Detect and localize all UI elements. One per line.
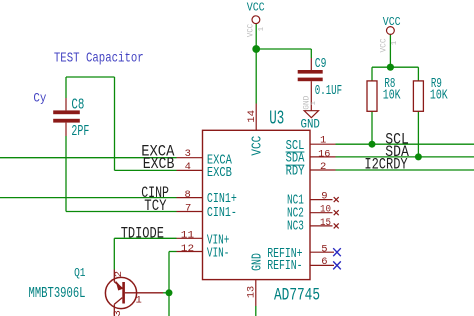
svg-text:0.1UF: 0.1UF bbox=[315, 84, 342, 99]
svg-text:C8: C8 bbox=[71, 96, 84, 113]
svg-text:EXCB: EXCB bbox=[207, 165, 232, 181]
svg-text:1: 1 bbox=[320, 134, 326, 146]
no-connect x pin 15 bbox=[334, 223, 339, 228]
wire VIN- pin12 horizontal bbox=[169, 251, 177, 253]
junction dot Q1 base / pin12 bbox=[166, 289, 173, 296]
svg-text:10: 10 bbox=[320, 205, 331, 216]
pin 16 SDA stub bbox=[310, 156, 336, 158]
no-connect X pin 5 bbox=[333, 248, 341, 256]
wire SCL net to right edge bbox=[336, 143, 474, 145]
wire R9 top stub bbox=[417, 67, 419, 81]
wire TDIODE vertical down to Q1 emitter bbox=[113, 238, 115, 269]
pin 2 RDY stub bbox=[310, 169, 336, 171]
transistor Q1 MMBT3906L bbox=[105, 270, 163, 316]
ground symbol below C9 bbox=[304, 111, 318, 118]
svg-text:Cy: Cy bbox=[33, 90, 46, 105]
svg-text:2: 2 bbox=[320, 161, 326, 173]
pin 7 CIN1- stub bbox=[177, 211, 203, 213]
wire VCC junction to C9 horizontal bbox=[256, 48, 311, 50]
wire CINP net from left edge to pin 8 bbox=[0, 197, 177, 199]
svg-text:14: 14 bbox=[246, 110, 258, 123]
pin 3 EXCA stub bbox=[177, 157, 203, 159]
svg-text:VCC: VCC bbox=[247, 24, 256, 37]
svg-text:4: 4 bbox=[185, 161, 191, 173]
wire R9 bottom to SDA bbox=[417, 111, 419, 157]
wire R8 bottom to SCL bbox=[371, 111, 373, 144]
svg-text:VCC: VCC bbox=[249, 136, 265, 156]
svg-text:NC3: NC3 bbox=[287, 219, 304, 235]
svg-text:MMBT3906L: MMBT3906L bbox=[29, 285, 86, 302]
pin 11 VIN+ stub bbox=[177, 237, 203, 239]
svg-text:GND: GND bbox=[301, 118, 320, 132]
svg-text:TCY: TCY bbox=[144, 197, 167, 215]
svg-text:1: 1 bbox=[258, 26, 266, 31]
svg-text:REFIN-: REFIN- bbox=[267, 258, 302, 274]
svg-text:15: 15 bbox=[320, 218, 331, 229]
svg-text:10K: 10K bbox=[383, 89, 401, 104]
capacitor C9 bbox=[298, 58, 323, 111]
junction dot R9/SDA bbox=[415, 153, 422, 160]
power symbol VCC top center bbox=[252, 16, 260, 24]
wire C8 top vertical up bbox=[65, 77, 67, 98]
svg-text:VCC: VCC bbox=[383, 15, 401, 29]
svg-text:U3: U3 bbox=[269, 107, 284, 129]
svg-text:12: 12 bbox=[181, 243, 194, 255]
svg-text:5: 5 bbox=[321, 243, 327, 255]
svg-text:1: 1 bbox=[136, 294, 142, 306]
wire EXCA net from left edge to pin 3 bbox=[0, 157, 177, 159]
svg-text:GND: GND bbox=[250, 253, 266, 271]
no-connect x pin 9 bbox=[334, 197, 339, 202]
svg-text:9: 9 bbox=[321, 190, 327, 202]
svg-text:I2CRDY: I2CRDY bbox=[364, 156, 407, 174]
junction dot R8/SCL bbox=[369, 141, 376, 148]
svg-text:AD7745: AD7745 bbox=[274, 285, 320, 305]
wire EXCB horizontal to pin 4 bbox=[115, 169, 177, 171]
svg-text:VCC: VCC bbox=[380, 38, 389, 52]
pin 6 REFIN- stub bbox=[310, 264, 334, 266]
wire C9 top drop bbox=[310, 49, 312, 58]
svg-text:8: 8 bbox=[185, 189, 191, 201]
pin 1 SCL stub bbox=[310, 143, 336, 145]
svg-text:11: 11 bbox=[181, 230, 194, 242]
pin 14 VCC stub top bbox=[255, 104, 257, 131]
junction dot VCC2 over resistors bbox=[387, 64, 394, 71]
wire TDIODE horizontal to pin 11 bbox=[114, 237, 176, 239]
svg-text:7: 7 bbox=[185, 202, 191, 214]
pin 10 NC2 stub bbox=[310, 212, 333, 214]
no-connect x pin 10 bbox=[334, 210, 339, 215]
wire vertical from pin12 down past Q1 base to bottom edge bbox=[168, 252, 170, 316]
svg-text:2: 2 bbox=[113, 271, 125, 277]
svg-text:C9: C9 bbox=[315, 57, 327, 72]
wire TCY net horizontal to pin 7 bbox=[66, 211, 177, 213]
power symbol VCC above resistors bbox=[387, 27, 395, 35]
pin 5 REFIN+ stub bbox=[310, 251, 334, 253]
junction dot at VCC/pin14 bbox=[252, 45, 260, 53]
svg-text:2PF: 2PF bbox=[71, 123, 89, 140]
svg-text:CIN1-: CIN1- bbox=[207, 205, 237, 221]
pin 4 EXCB stub bbox=[177, 169, 203, 171]
svg-text:1: 1 bbox=[310, 101, 318, 106]
op-amp U3 body AD7745 bbox=[203, 130, 311, 279]
svg-text:TDIODE: TDIODE bbox=[121, 224, 164, 242]
svg-text:TEST Capacitor: TEST Capacitor bbox=[54, 51, 144, 67]
pin 9 NC1 stub bbox=[310, 199, 333, 201]
wire pin13 bottom green bbox=[255, 306, 257, 316]
pin 15 NC3 stub bbox=[310, 225, 333, 227]
no-connect X pin 6 bbox=[333, 261, 341, 269]
wire R8-R9 top horizontal bbox=[372, 66, 418, 68]
svg-text:VCC: VCC bbox=[247, 1, 265, 15]
wire I2CRDY net to right edge bbox=[336, 169, 474, 171]
svg-text:EXCB: EXCB bbox=[143, 155, 175, 173]
svg-text:RDY: RDY bbox=[286, 164, 305, 180]
svg-text:16: 16 bbox=[318, 149, 330, 161]
pin 13 GND stub bottom bbox=[255, 280, 257, 306]
pin 12 VIN- stub bbox=[177, 251, 203, 253]
wire C8 bottom vertical down to TCY bbox=[65, 136, 67, 212]
svg-text:3: 3 bbox=[112, 310, 124, 316]
svg-text:6: 6 bbox=[321, 256, 327, 268]
wire VCC2 drop to horizontal bbox=[389, 35, 391, 68]
wire test-cap box right vertical bbox=[114, 77, 116, 170]
svg-text:1: 1 bbox=[391, 40, 399, 45]
wire SDA net to right edge bbox=[336, 156, 474, 158]
wire R8 top stub bbox=[371, 67, 373, 81]
resistor R9 bbox=[413, 81, 423, 111]
wire Q1 base to junction bbox=[163, 292, 169, 294]
svg-text:VIN-: VIN- bbox=[207, 246, 230, 262]
pin 8 CIN1+ stub bbox=[177, 197, 203, 199]
svg-text:3: 3 bbox=[185, 148, 191, 160]
svg-text:10K: 10K bbox=[430, 89, 448, 104]
svg-text:Q1: Q1 bbox=[74, 266, 85, 280]
resistor R8 bbox=[367, 81, 377, 111]
wire VCC to pin 14 vertical bbox=[255, 24, 257, 104]
capacitor C8 bbox=[53, 98, 80, 136]
svg-text:13: 13 bbox=[246, 286, 258, 298]
wire test-cap box top horizontal bbox=[66, 76, 115, 78]
